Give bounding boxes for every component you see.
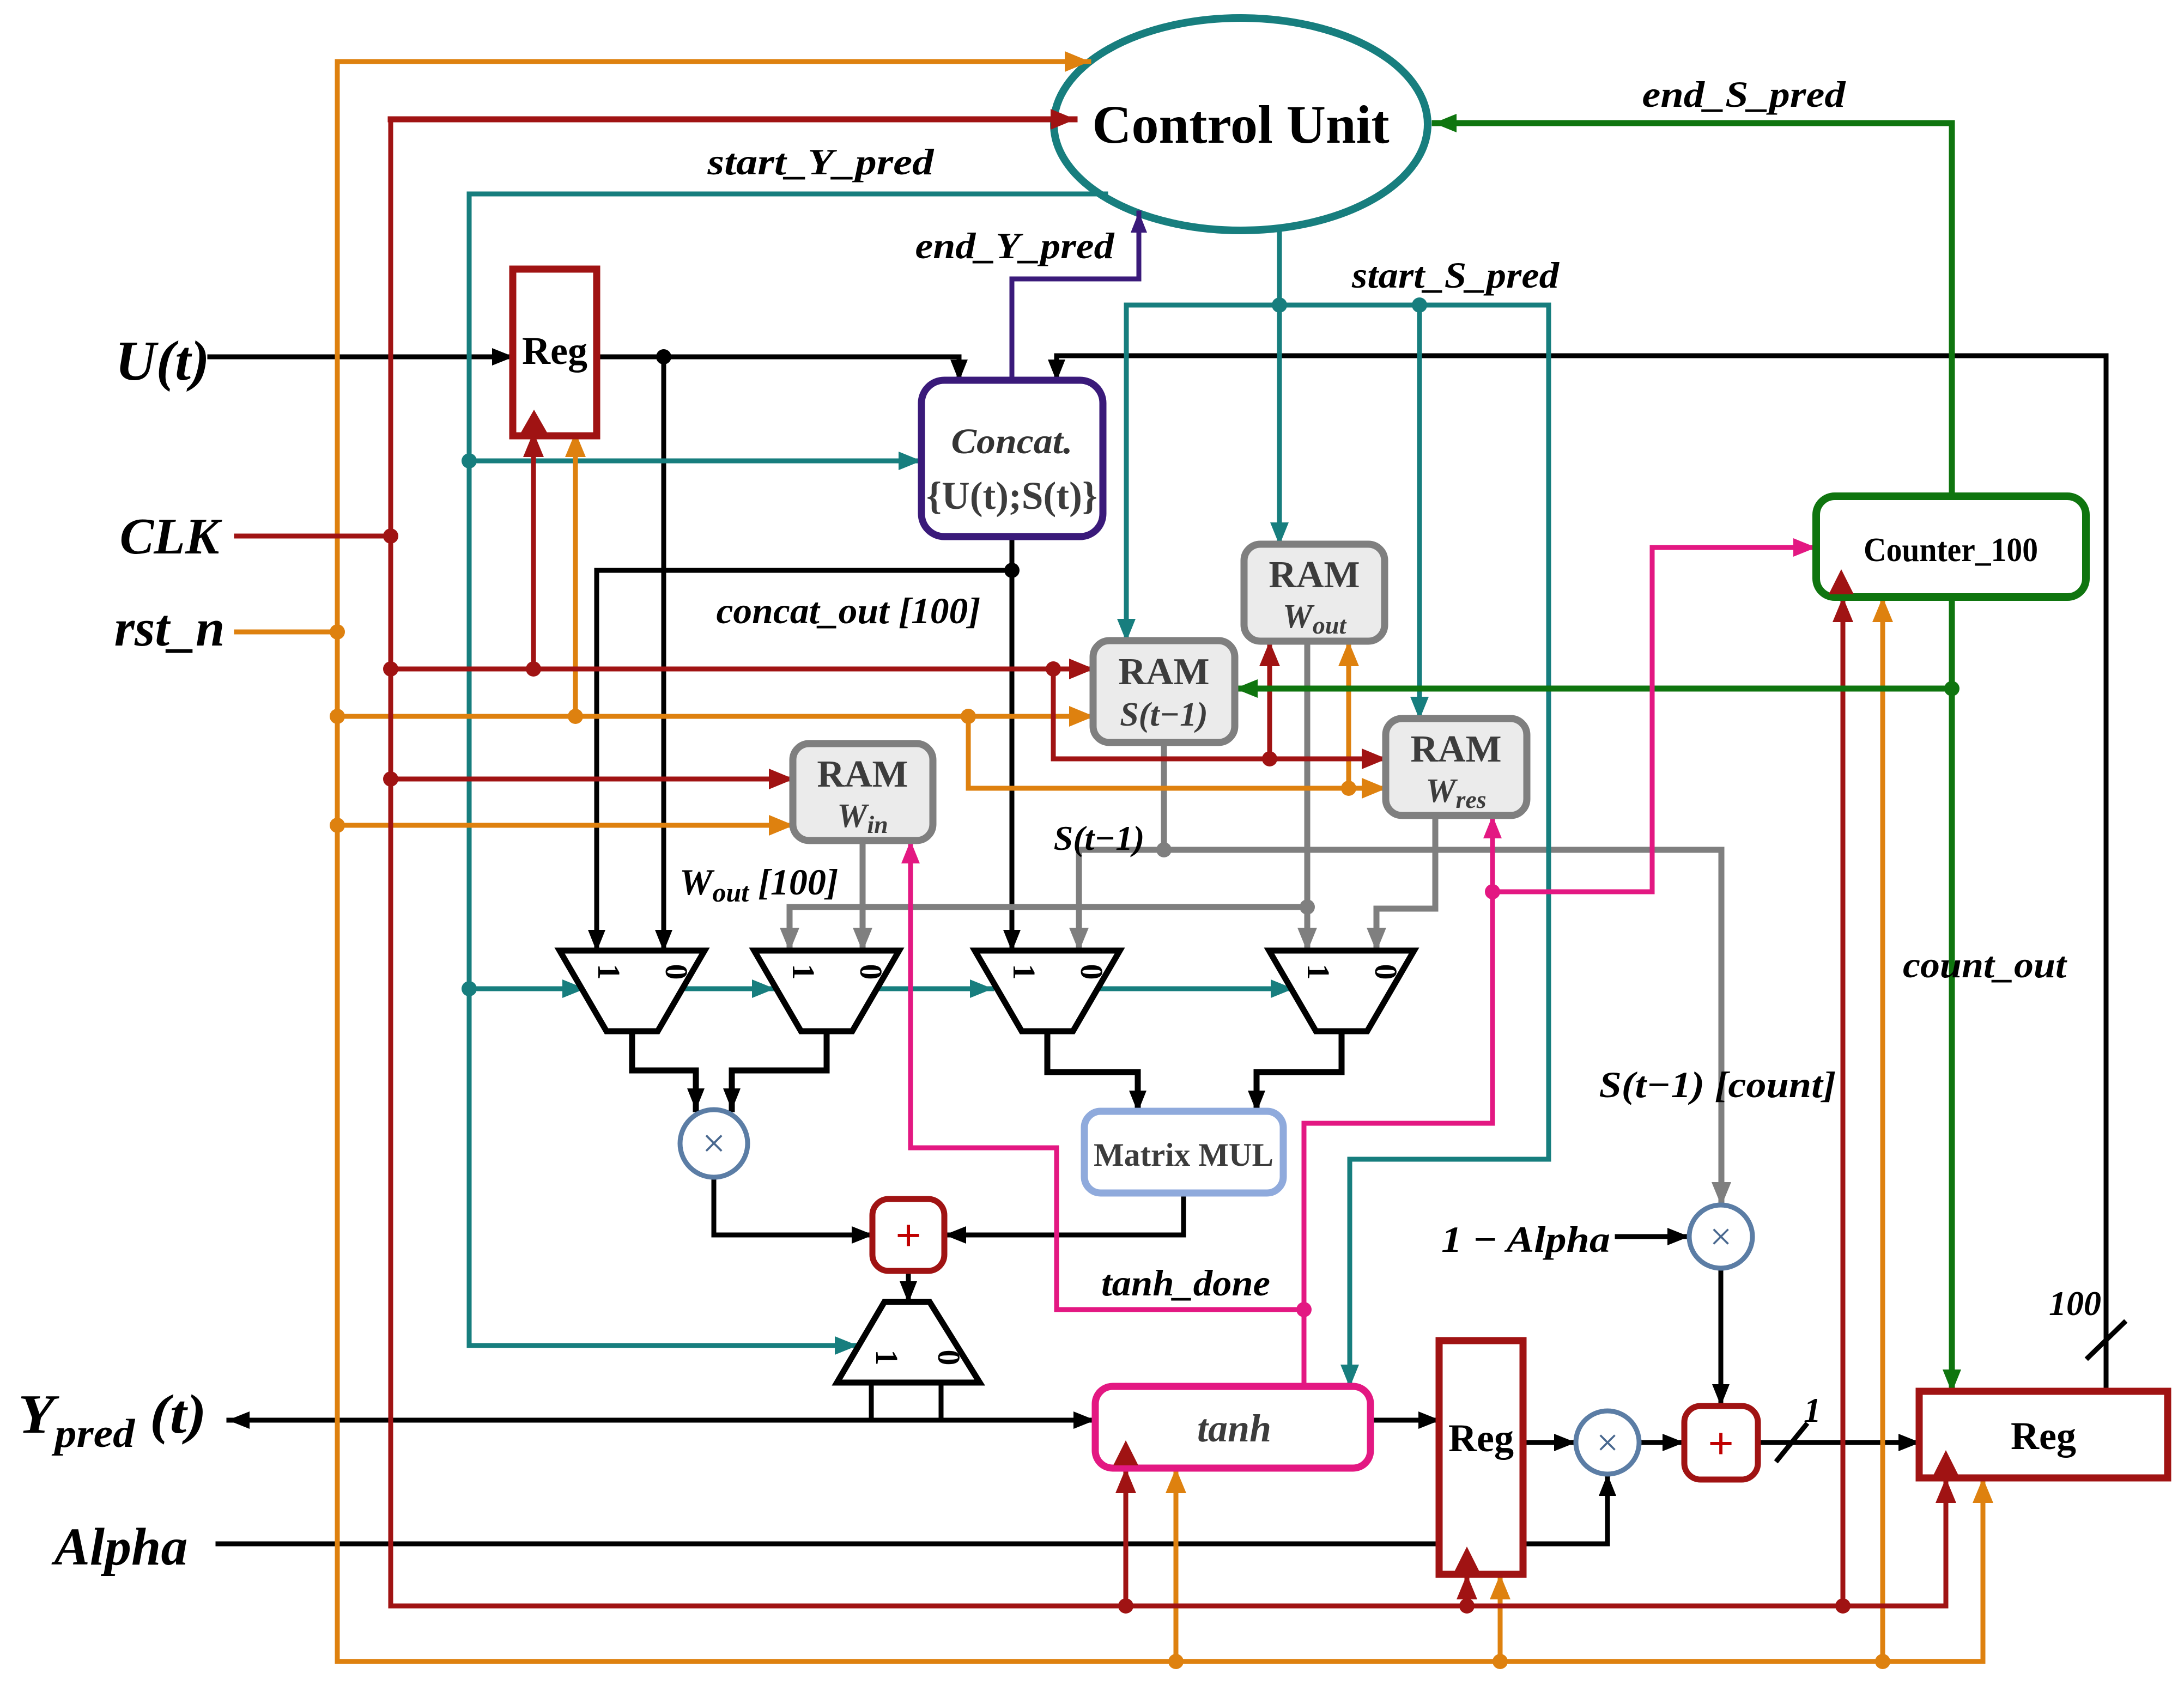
svg-text:Alpha: Alpha [51, 1518, 187, 1577]
wire teal to RAM S(t-1) top [1124, 305, 1129, 641]
wire purple end_Y_pred from Concat to Control Unit [1012, 213, 1139, 380]
node teal junction W_res branch [1412, 297, 1427, 313]
svg-text:concat_out [100]: concat_out [100] [717, 590, 981, 631]
node teal junction W_out branch [1272, 297, 1287, 313]
wire teal select mux1 [469, 987, 584, 991]
svg-text:S(t−1) [count]: S(t−1) [count] [1599, 1064, 1836, 1105]
svg-text:Wout [100]: Wout [100] [680, 861, 838, 908]
wire darkred up to Counter_100 clock [1841, 598, 1846, 1606]
svg-text:tanh: tanh [1197, 1407, 1271, 1450]
wire darkred CLK rail vertical [389, 119, 393, 1606]
wire pink to RAM W_in bottom [911, 842, 1304, 1310]
svg-text:1: 1 [1006, 964, 1042, 980]
wire orange to Control Unit [337, 59, 1089, 64]
wire concat_out to mux3 input 1 [1010, 537, 1015, 951]
svg-text:count_out: count_out [1903, 944, 2067, 985]
wire darkred up to tanh clock [1124, 1469, 1129, 1606]
svg-text:rst_n: rst_n [114, 599, 225, 657]
svg-text:1 − Alpha: 1 − Alpha [1441, 1219, 1610, 1260]
node orange junction Counter reset [1875, 1654, 1890, 1669]
node junction concat_out [1004, 563, 1020, 578]
node darkred junction W_out branch [1262, 751, 1277, 766]
node darkred junction Reg2 clock [1459, 1598, 1475, 1614]
node teal junction select rail [462, 981, 477, 996]
wire adder P2 to Reg3 [1758, 1440, 1919, 1445]
wire gray W bus to mux2 input 1 [787, 907, 793, 951]
svg-text:100: 100 [2049, 1284, 2101, 1323]
svg-text:start_Y_pred: start_Y_pred [707, 141, 934, 182]
wire S(t) feedback from Reg3 to Concat top-right [1057, 356, 2106, 1391]
wire width slash 1 [1777, 1425, 1806, 1460]
wire orange rst_n rail vertical [335, 62, 340, 1661]
svg-text:+: + [1708, 1419, 1734, 1469]
wire teal to RAM W_res top [1417, 305, 1422, 719]
wire darkred up to Reg1 clock [531, 433, 536, 669]
wire gray W_out output to mux4 input 1 [1305, 641, 1311, 951]
svg-text:0: 0 [853, 964, 889, 980]
wire pink up right branch [1304, 892, 1493, 1310]
wire green end_S_pred from Counter to Control Unit [1435, 123, 1952, 496]
Counter_100 [1816, 496, 2086, 597]
wire darkred to RAM W_in left [391, 777, 793, 782]
wire mux1 output to multiplier X1 [632, 1031, 696, 1109]
wire Y_pred output line [229, 1418, 1095, 1423]
wire into tanh [941, 1418, 1094, 1423]
wire concat_out branch to mux1 input 1 [597, 570, 1012, 951]
wire mux4 output to Matrix MUL [1257, 1031, 1342, 1111]
node darkred junction CLK [383, 528, 398, 544]
svg-text:U(t): U(t) [115, 330, 209, 392]
svg-text:1: 1 [1301, 964, 1336, 980]
wire orange up to tanh reset [1174, 1469, 1179, 1661]
wire U(t) input [210, 355, 513, 360]
svg-text:+: + [895, 1210, 921, 1261]
wire teal Control Unit to start_S_pred rail [1277, 229, 1282, 305]
svg-text:Matrix MUL: Matrix MUL [1094, 1137, 1273, 1173]
wire gray S bus to mux3 input 0 [1079, 850, 1164, 951]
wire mux2 output to multiplier X1 [732, 1031, 827, 1109]
wire teal select mux3 [877, 987, 992, 991]
wire orange bottom rail to Reg3 reset [337, 1479, 1983, 1661]
wire darkred to RAM S(t-1) left [391, 667, 1093, 672]
wire orange up to Reg1 reset [573, 433, 578, 716]
RAM S(t-1) [1093, 641, 1235, 742]
svg-text:Concat.: Concat. [951, 422, 1073, 461]
svg-text:Reg: Reg [522, 329, 587, 373]
wire tanh to Reg2 [1370, 1418, 1439, 1423]
node darkred junction rail y1430 [383, 771, 398, 787]
wire gray W bus horizontal [790, 904, 1307, 910]
Matrix MUL block [1084, 1111, 1283, 1193]
svg-text:tanh_done: tanh_done [1101, 1262, 1270, 1304]
svg-text:1: 1 [591, 964, 627, 980]
wire Reg1 output to Concat top-left [597, 357, 959, 380]
wire X3 to adder P2 [1641, 1440, 1683, 1445]
svg-text:1: 1 [1804, 1391, 1821, 1429]
wire teal to RAM W_out top [1277, 305, 1282, 544]
adder P1 [872, 1199, 944, 1271]
svg-text:S(t−1): S(t−1) [1054, 819, 1145, 857]
mux M4 [1269, 951, 1414, 1031]
wire orange to RAM S(t-1) left [337, 714, 1093, 719]
wire mux3 output to Matrix MUL [1047, 1031, 1138, 1111]
wire green count from Counter down to Reg3 [1949, 597, 1955, 1391]
Control Unit ellipse [1054, 18, 1428, 230]
multiplier X1 [680, 1110, 748, 1177]
wire darkred to Control Unit [391, 117, 1075, 123]
node darkred junction Counter clock [1835, 1598, 1851, 1614]
wire orange up to Counter_100 reset [1880, 598, 1885, 1661]
svg-text:end_Y_pred: end_Y_pred [915, 225, 1115, 266]
wire gray W_in output to mux2 input 0 [860, 841, 866, 951]
wire darkred bottom rail to Reg3 clock [391, 1479, 1946, 1606]
wire green to RAM S(t-1) right [1236, 686, 1952, 692]
svg-text:{U(t);S(t)}: {U(t);S(t)} [926, 474, 1097, 518]
Concat block [921, 380, 1103, 537]
wire orange down to RAM W_res left [968, 716, 1386, 788]
svg-text:start_S_pred: start_S_pred [1351, 254, 1560, 296]
node orange junction tanh reset [1168, 1654, 1184, 1669]
svg-text:×: × [1710, 1215, 1732, 1258]
node orange junction Reg1 reset [568, 709, 583, 724]
multiplier X2 [1689, 1205, 1752, 1268]
node darkred junction W_res branch [1046, 661, 1061, 677]
svg-text:RAM: RAM [1118, 651, 1209, 693]
wire orange up to RAM W_out bottom [1346, 642, 1351, 788]
wire Reg2 to X3 [1523, 1440, 1575, 1445]
node orange junction rail y1515 [330, 818, 345, 833]
svg-text:×: × [702, 1121, 726, 1166]
wire gray W_res output to mux4 input 0 [1376, 815, 1435, 951]
node teal junction concat branch [462, 453, 477, 468]
svg-text:0: 0 [659, 964, 694, 980]
node orange junction rst_n [330, 624, 345, 640]
wire Alpha input to X3 [218, 1475, 1607, 1544]
svg-text:Reg: Reg [2011, 1414, 2076, 1458]
wire teal start_Y_pred from Control Unit to select rail [469, 194, 1106, 1346]
wire orange to RAM W_in left [337, 823, 793, 828]
wire pink to RAM W_res bottom [1490, 817, 1495, 892]
svg-text:S(t−1): S(t−1) [1120, 696, 1208, 733]
svg-text:0: 0 [1368, 964, 1404, 980]
wire rst_n input [236, 630, 337, 635]
node orange junction Reg2 reset [1493, 1654, 1508, 1669]
register Reg3 [1919, 1391, 2168, 1478]
wire 1-Alpha to X2 [1617, 1234, 1688, 1239]
svg-text:Ypred (t): Ypred (t) [18, 1384, 207, 1456]
multiplier X3 [1576, 1411, 1639, 1474]
node gray junction S bus [1156, 842, 1172, 857]
wire pink to Counter_100 left [1493, 547, 1815, 892]
wire darkred up to RAM W_out bottom [1267, 642, 1272, 759]
wire X2 output to adder P2 [1719, 1268, 1724, 1405]
svg-text:0: 0 [1074, 964, 1109, 980]
svg-text:1: 1 [786, 964, 821, 980]
node junction Reg1 out [656, 349, 671, 364]
node orange junction W_out branch [1341, 781, 1356, 796]
node orange junction rail y1315 [330, 709, 345, 724]
svg-text:1: 1 [869, 1350, 905, 1366]
adder P2 [1684, 1406, 1758, 1480]
register Reg1 [513, 269, 597, 436]
mux MY output Y mux [837, 1302, 980, 1383]
svg-text:RAM: RAM [1410, 728, 1501, 770]
wire CLK input [236, 534, 391, 539]
node gray junction W bus [1300, 899, 1315, 915]
wire teal to Concat [469, 459, 920, 464]
wire teal to tanh top [1350, 305, 1549, 1386]
svg-text:Control Unit: Control Unit [1092, 94, 1389, 155]
wire orange up to Reg2 reset [1498, 1575, 1503, 1661]
svg-text:RAM: RAM [1269, 554, 1360, 596]
tanh block [1095, 1386, 1370, 1468]
wire Matrix MUL output to adder P1 [945, 1193, 1184, 1235]
wire gray S(t-1) bus from RAM S(t-1) [1161, 739, 1167, 850]
node pink junction tanh_done [1296, 1302, 1312, 1317]
svg-text:CLK: CLK [120, 508, 222, 565]
RAM W_in [793, 744, 933, 841]
node darkred junction tanh clock [1118, 1598, 1133, 1614]
node darkred junction Reg1 clock [526, 661, 541, 677]
wire width slash 100 [2088, 1323, 2124, 1358]
svg-text:0: 0 [931, 1350, 967, 1366]
svg-text:×: × [1597, 1421, 1619, 1464]
RAM W_out [1244, 544, 1385, 641]
node darkred junction rail y1228 [383, 661, 398, 677]
node pink junction W_res branch [1485, 884, 1500, 899]
node green junction count [1944, 681, 1959, 696]
mux M2 [754, 951, 899, 1031]
svg-text:Reg: Reg [1448, 1416, 1514, 1460]
wire gray S bus to X2 multiplier [1164, 850, 1721, 1205]
register Reg2 [1439, 1341, 1523, 1574]
wire darkred up to Reg2 clock [1465, 1575, 1470, 1606]
svg-text:end_S_pred: end_S_pred [1642, 74, 1846, 115]
node orange junction W_res branch [961, 709, 976, 724]
wire X1 output to adder P1 [714, 1177, 872, 1235]
wire adder P1 output to Y mux [906, 1271, 911, 1302]
wire darkred down to RAM W_res left [1053, 669, 1386, 759]
mux M3 [975, 951, 1120, 1031]
wire teal select mux4 [1097, 987, 1293, 991]
svg-text:RAM: RAM [817, 753, 908, 795]
mux M1 [560, 951, 705, 1031]
wire teal select mux2 [682, 987, 774, 991]
RAM W_res [1386, 719, 1527, 815]
wire pink tanh_done from tanh top [1302, 1310, 1307, 1386]
wire teal start_S_pred rail [1126, 303, 1549, 308]
wire branch to mux1 input 0 [662, 357, 666, 951]
wire Y mux legs [871, 1383, 941, 1420]
svg-text:Counter_100: Counter_100 [1864, 532, 2038, 569]
